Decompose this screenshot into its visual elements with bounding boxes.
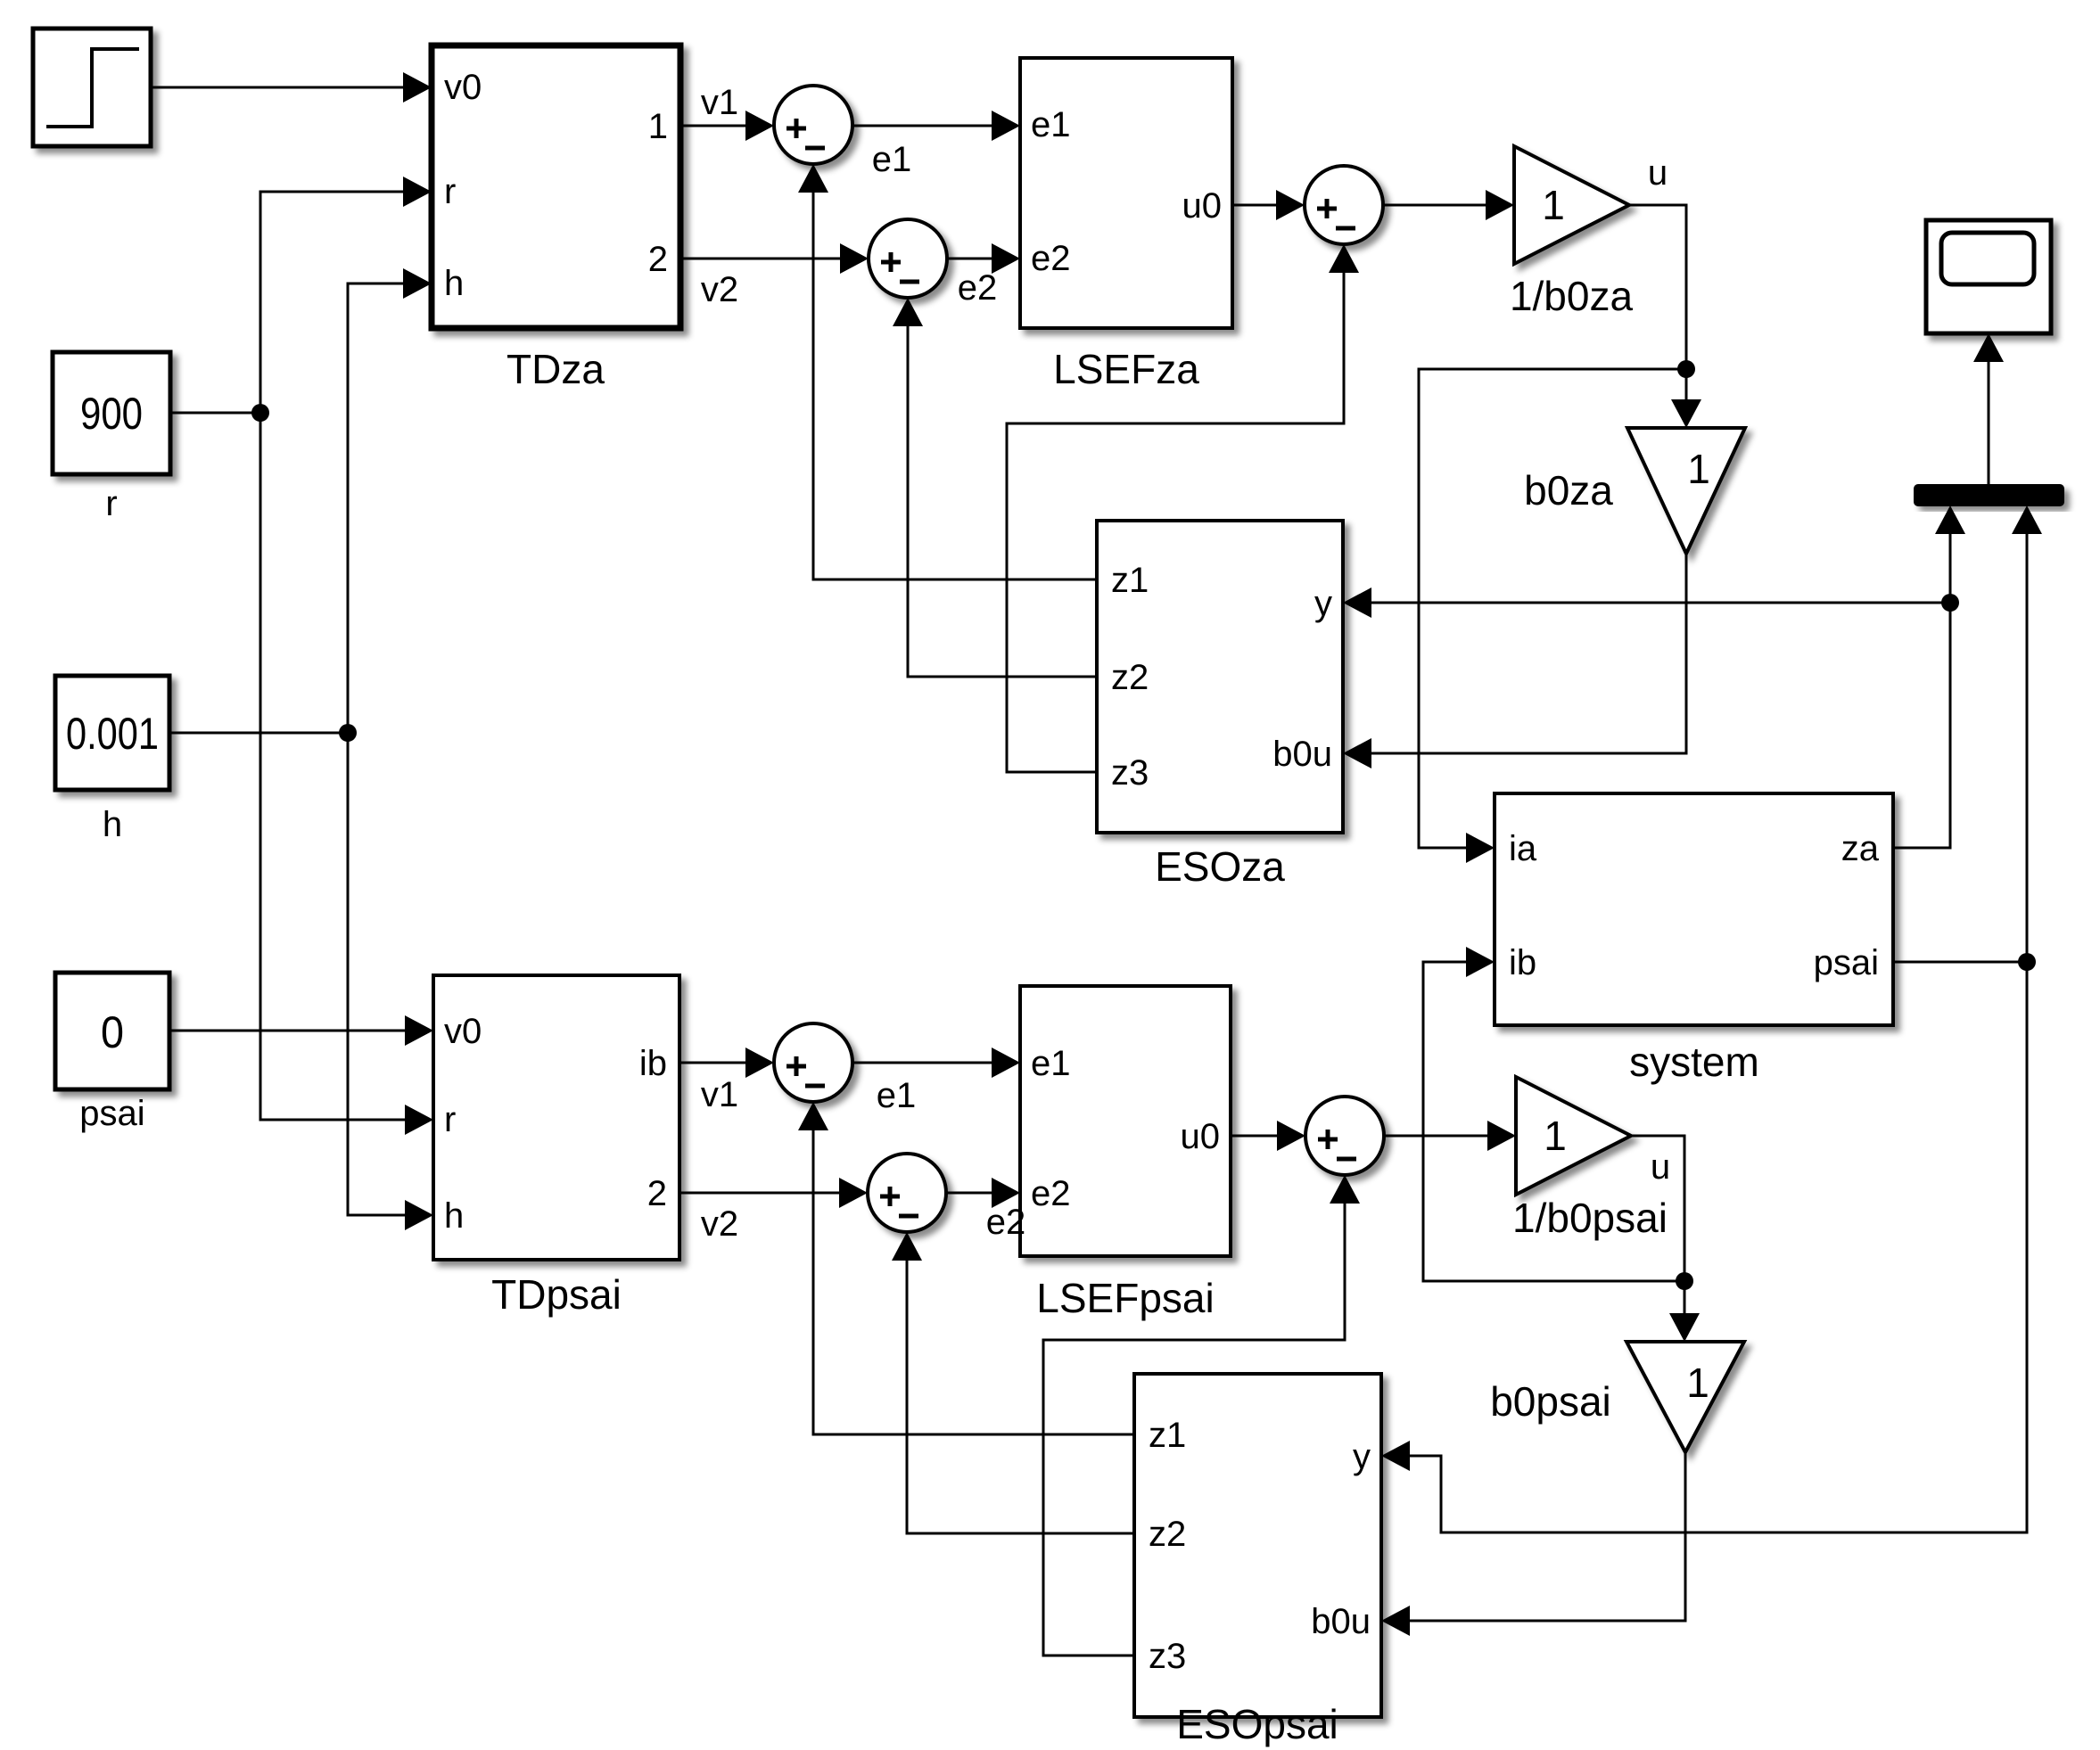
svg-text:v1: v1 [701,1075,738,1114]
svg-text:ESOza: ESOza [1155,843,1285,890]
svg-text:ia: ia [1509,829,1537,868]
svg-text:e1: e1 [872,140,912,179]
svg-text:e2: e2 [986,1203,1026,1242]
svg-text:z1: z1 [1149,1416,1186,1455]
svg-text:1: 1 [1687,446,1710,492]
svg-text:z3: z3 [1149,1637,1186,1676]
svg-text:LSEFza: LSEFza [1053,346,1199,392]
svg-text:ESOpsai: ESOpsai [1176,1701,1338,1747]
svg-text:h: h [444,1196,464,1236]
svg-text:b0za: b0za [1524,467,1613,513]
svg-text:r: r [444,1100,456,1139]
svg-text:e2: e2 [1031,1174,1071,1213]
svg-text:psai: psai [1814,943,1879,982]
svg-text:u: u [1648,153,1668,193]
svg-text:1/b0za: 1/b0za [1510,273,1634,319]
svg-text:h: h [444,264,464,303]
svg-text:1/b0psai: 1/b0psai [1512,1195,1668,1241]
svg-text:900: 900 [80,389,143,439]
svg-text:u0: u0 [1181,1117,1221,1156]
svg-text:z3: z3 [1111,753,1149,793]
svg-text:r: r [105,484,117,523]
svg-text:TDpsai: TDpsai [491,1271,622,1318]
svg-text:u: u [1651,1147,1670,1187]
svg-text:z2: z2 [1149,1515,1186,1554]
svg-text:h: h [103,805,122,844]
svg-text:r: r [444,172,456,211]
svg-text:LSEFpsai: LSEFpsai [1036,1275,1214,1321]
svg-text:1: 1 [1544,1113,1567,1159]
svg-text:v1: v1 [701,83,738,122]
svg-text:b0u: b0u [1311,1602,1371,1641]
svg-text:v2: v2 [701,270,738,309]
svg-text:y: y [1353,1437,1371,1476]
svg-text:2: 2 [648,240,668,279]
svg-text:ib: ib [1509,943,1536,982]
svg-text:e1: e1 [877,1076,917,1115]
svg-text:ib: ib [639,1044,667,1083]
svg-text:2: 2 [647,1174,667,1213]
svg-text:1: 1 [648,107,668,146]
svg-text:system: system [1629,1039,1759,1085]
svg-text:za: za [1841,829,1880,868]
svg-text:b0u: b0u [1272,735,1332,774]
svg-text:e2: e2 [1031,239,1071,278]
svg-text:z1: z1 [1111,561,1149,600]
svg-text:1: 1 [1542,182,1565,228]
svg-text:psai: psai [79,1094,144,1133]
svg-text:e1: e1 [1031,105,1071,144]
svg-text:1: 1 [1686,1360,1709,1406]
svg-text:e1: e1 [1031,1044,1071,1083]
svg-text:0.001: 0.001 [66,709,159,759]
svg-text:v2: v2 [701,1204,738,1244]
svg-text:u0: u0 [1182,186,1223,226]
svg-text:z2: z2 [1111,658,1149,697]
svg-text:0: 0 [101,1007,124,1057]
svg-text:b0psai: b0psai [1490,1378,1611,1425]
svg-text:TDza: TDza [506,346,605,392]
svg-text:v0: v0 [444,1012,482,1051]
svg-text:y: y [1314,584,1332,623]
svg-text:e2: e2 [958,268,998,308]
svg-text:v0: v0 [444,68,482,107]
